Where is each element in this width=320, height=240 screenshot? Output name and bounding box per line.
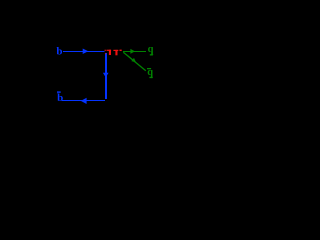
svg-text:b: b <box>56 46 62 58</box>
svg-text:q: q <box>148 44 154 55</box>
svg-text:b: b <box>57 92 63 104</box>
svg-text:q: q <box>147 67 153 78</box>
